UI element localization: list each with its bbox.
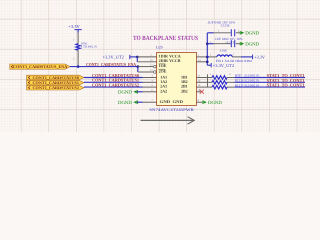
- pin stub 1OE with bubble: [138, 64, 156, 68]
- pin stub VCCB: [196, 59, 207, 62]
- pin name 2DIR: [159, 58, 168, 63]
- pin name 2OE: [159, 68, 167, 73]
- svg-text:GND: GND: [160, 99, 171, 104]
- port CONT1_CARDSTATUS0: [27, 75, 84, 80]
- wire 1A2 row: [84, 81, 143, 83]
- pin stub 2B2: [196, 89, 201, 92]
- svg-text:DGND: DGND: [208, 100, 222, 106]
- svg-text:FB 1.5A 60 Ohm 0402: FB 1.5A 60 Ohm 0402: [216, 59, 252, 63]
- pin stub 1A1: [143, 75, 157, 78]
- title TO BACKPLANE STATUS: [133, 35, 198, 42]
- annotation arrow: [141, 117, 195, 124]
- net label STAT1_TO_CONT1 row2: [267, 78, 306, 83]
- wire VCC vertical: [206, 33, 208, 65]
- power +3.3V right: [253, 55, 265, 60]
- svg-text:L166: L166: [220, 48, 227, 52]
- svg-text:CONT1_CARDSTATUS0: CONT1_CARDSTATUS0: [33, 76, 80, 80]
- net label CONT1_CARDSTATUS0: [92, 73, 140, 78]
- bus line right of B stubs: [207, 74, 209, 87]
- svg-text:CONT1_CARDSTATUS2: CONT1_CARDSTATUS2: [33, 86, 80, 90]
- pin 2 of R766: [73, 58, 75, 61]
- pin name VCCB: [169, 58, 181, 63]
- pin name GND right: [173, 99, 184, 104]
- net label CONT1_CARDSTATUS_ENA: [86, 62, 137, 67]
- pin name 2B2: [181, 88, 188, 93]
- wire 1B2 to edge: [208, 81, 306, 83]
- pin name 1A2: [160, 79, 167, 84]
- svg-text:+3.3V: +3.3V: [68, 24, 80, 29]
- wire 2B1 to edge: [208, 86, 306, 88]
- pin stub 2A2: [143, 89, 157, 92]
- junction VCC VCCA: [206, 56, 209, 59]
- no-ERC marker X: [200, 90, 204, 94]
- pin stub 2DIR: [137, 59, 156, 62]
- pin stub GND left: [143, 99, 157, 102]
- svg-text:+3.3V_UT2: +3.3V_UT2: [213, 63, 234, 68]
- pin name 2A2: [160, 88, 167, 93]
- svg-text:2B2: 2B2: [181, 88, 188, 93]
- svg-text:DGND: DGND: [245, 31, 259, 37]
- junction OE branch: [137, 65, 140, 68]
- resistor R769: [212, 83, 260, 89]
- wire R766 bottom to ENA net: [77, 50, 79, 66]
- svg-text:SN74AVC4T245PWR: SN74AVC4T245PWR: [149, 107, 194, 112]
- svg-text:TO BACKPLANE STATUS: TO BACKPLANE STATUS: [133, 35, 198, 42]
- capacitor C1236: [207, 20, 240, 36]
- pin stub 1B1: [196, 75, 207, 78]
- junction VCC VCCB: [206, 61, 209, 64]
- svg-text:VCCB: VCCB: [169, 58, 181, 63]
- pin stub 2A1: [143, 84, 157, 87]
- pin stub VCCA: [196, 54, 207, 57]
- port CONT1_CARDSTATUS1: [27, 80, 84, 85]
- pin name 1B2: [181, 79, 188, 84]
- pin stub 1DIR: [137, 54, 156, 57]
- svg-text:U29: U29: [156, 46, 163, 50]
- op-amp U29 body: [156, 46, 196, 106]
- svg-text:+3.3V_UT2: +3.3V_UT2: [103, 55, 124, 60]
- wire GND left row: [137, 101, 143, 103]
- net label STAT1_TO_CONT1 row1: [267, 73, 306, 78]
- svg-text:CONT1_CARDSTATUS_ENA: CONT1_CARDSTATUS_ENA: [86, 62, 137, 67]
- wire OE branch vertical: [137, 67, 139, 72]
- net label CONT1_CARDSTATUS2: [92, 83, 140, 88]
- pin stub 2OE with bubble: [138, 69, 156, 73]
- resistor R766: [76, 42, 98, 50]
- pin name 1B1: [181, 74, 188, 79]
- power +3.3V_UT2 right: [207, 63, 234, 68]
- pin 1 of R766: [73, 39, 75, 42]
- pin stub 1A2: [143, 79, 157, 82]
- svg-text:2A2: 2A2: [160, 88, 167, 93]
- power DGND at C1236: [240, 31, 259, 37]
- junction R766/ENA: [77, 65, 80, 68]
- wire 2A1 row: [84, 86, 143, 88]
- resistor R768: [212, 79, 260, 85]
- junction VCC cap2: [206, 42, 209, 45]
- svg-text:DGND: DGND: [245, 41, 259, 47]
- svg-text:C1237: C1237: [227, 40, 236, 44]
- pin name 1A1: [160, 74, 167, 79]
- svg-text:+3.3V: +3.3V: [254, 55, 265, 60]
- svg-text:DGND: DGND: [118, 89, 132, 95]
- pin name GND left: [160, 99, 171, 104]
- net label CONT1_CARDSTATUS1: [92, 78, 140, 83]
- power DGND at C1237: [240, 41, 259, 47]
- wire 2A2 row: [137, 91, 143, 93]
- wire 1B1 to edge: [208, 77, 306, 79]
- port CONT1_CARDSTATUS2: [27, 85, 84, 90]
- wire DIR branch vertical: [136, 57, 138, 62]
- part number SN74AVC4T245PWR: [149, 107, 194, 112]
- pin name 2A1: [160, 84, 167, 89]
- resistor R767: [210, 73, 260, 79]
- power +3.3V top: [68, 24, 81, 44]
- wire 1A1 row: [84, 77, 143, 79]
- svg-text:GND: GND: [173, 99, 184, 104]
- pin name 1OE: [159, 63, 167, 68]
- svg-text:DGND: DGND: [118, 100, 132, 106]
- svg-text:STAT1_TO_CONT1: STAT1_TO_CONT1: [267, 83, 306, 88]
- capacitor C1237: [207, 37, 243, 47]
- pin name 2B1: [181, 84, 188, 89]
- wire ENA row: [70, 66, 138, 68]
- power DGND at GND right: [203, 100, 223, 106]
- svg-text:4.75K 0402 1%: 4.75K 0402 1%: [81, 45, 98, 48]
- inductor L166: [207, 48, 252, 63]
- power +3.3V_UT2 left: [103, 55, 138, 60]
- power DGND at GND left: [118, 100, 137, 106]
- pin stub 2B1: [196, 84, 207, 87]
- power DGND at 2A2: [118, 89, 137, 95]
- svg-text:CONT1_CARDSTATUS1: CONT1_CARDSTATUS1: [33, 81, 80, 85]
- pin stub GND right: [196, 99, 202, 102]
- port CONT1_CARDSTATUS_ENA: [10, 64, 70, 69]
- svg-text:CONT1_CARDSTATUS2: CONT1_CARDSTATUS2: [92, 83, 140, 88]
- svg-text:CONT1_CARDSTATUS_ENA: CONT1_CARDSTATUS_ENA: [13, 64, 67, 69]
- pin name VCCA: [169, 53, 181, 58]
- net label STAT1_TO_CONT1 row3: [267, 83, 306, 88]
- junction DIR branch: [136, 56, 139, 59]
- pin stub 1B2: [196, 79, 207, 82]
- pin name 1DIR: [159, 53, 168, 58]
- svg-text:C1236: C1236: [221, 24, 230, 28]
